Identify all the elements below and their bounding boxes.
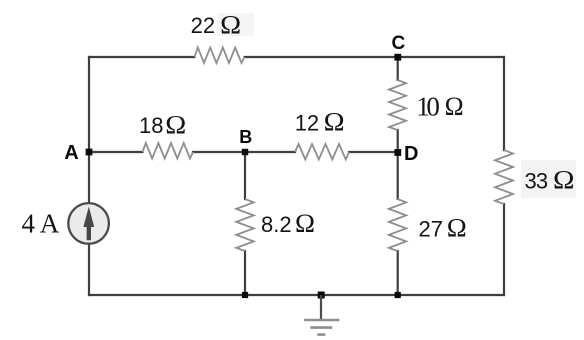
wire node B down to 8.2ohm	[244, 152, 246, 199]
current source arrow	[83, 207, 94, 241]
resistor 22 ohm zigzag	[195, 48, 245, 64]
svg-text:8.2: 8.2	[261, 212, 292, 237]
node C junction square	[394, 54, 401, 61]
wire right vertical upper	[503, 57, 505, 150]
svg-text:Ω: Ω	[445, 92, 464, 121]
node A junction square	[86, 149, 93, 156]
svg-text:Ω: Ω	[553, 165, 575, 194]
svg-text:Ω: Ω	[324, 107, 345, 136]
svg-text:A: A	[40, 209, 60, 239]
svg-text:18: 18	[139, 113, 163, 138]
svg-text:A: A	[64, 142, 78, 164]
svg-text:Ω: Ω	[295, 209, 315, 238]
resistor 18 ohm zigzag	[143, 143, 194, 159]
svg-text:D: D	[404, 143, 418, 165]
svg-text:Ω: Ω	[220, 11, 241, 40]
junction square bottom of 27 ohm	[395, 292, 401, 298]
wire 8.2ohm to bottom	[244, 251, 246, 295]
ground stem	[320, 295, 322, 320]
svg-text:22: 22	[191, 13, 215, 38]
wire 10ohm to node D	[397, 130, 399, 152]
svg-text:4: 4	[22, 209, 36, 239]
ground bar 1	[304, 319, 339, 322]
wire 18ohm to node B	[193, 151, 245, 153]
resistor 12 ohm zigzag	[295, 144, 349, 160]
wire left vertical upper	[88, 57, 90, 203]
wire 12ohm to node D	[349, 151, 398, 153]
wire node D down to 27ohm	[397, 152, 399, 199]
svg-text:27: 27	[419, 217, 443, 242]
wire node B to 12ohm	[245, 151, 295, 153]
resistor 10 ohm zigzag	[389, 80, 406, 130]
junction square at ground tap	[318, 292, 325, 299]
junction square bottom of 8.2 ohm	[242, 292, 248, 298]
current source I1 circle	[68, 203, 109, 244]
node B junction square	[242, 149, 248, 155]
wire right vertical lower	[503, 204, 505, 295]
svg-text:Ω: Ω	[165, 110, 186, 139]
svg-text:12: 12	[295, 110, 319, 135]
wire node A to 18ohm	[89, 151, 143, 153]
resistor 27 ohm zigzag	[389, 199, 406, 251]
wire bottom	[89, 294, 504, 296]
svg-text:33: 33	[525, 168, 548, 193]
svg-text:0: 0	[426, 91, 440, 121]
wire 22ohm to top-right corner	[245, 56, 505, 58]
resistor 33 ohm zigzag	[495, 150, 513, 204]
faint background patch behind 33 ohm label	[521, 160, 576, 198]
faint background patch behind 22 ohm label	[217, 13, 254, 36]
wire left vertical lower	[88, 244, 90, 295]
ground bar 3	[317, 333, 325, 336]
resistor 8.2 ohm zigzag	[236, 199, 254, 251]
wire 27ohm to bottom	[397, 251, 399, 295]
ground bar 2	[310, 326, 332, 329]
node D junction square	[394, 149, 401, 156]
svg-text:Ω: Ω	[447, 214, 467, 243]
wire top-left to 22ohm	[89, 56, 195, 58]
svg-text:C: C	[392, 33, 406, 54]
wire node C down to 10ohm	[397, 57, 399, 80]
svg-text:B: B	[239, 127, 252, 147]
